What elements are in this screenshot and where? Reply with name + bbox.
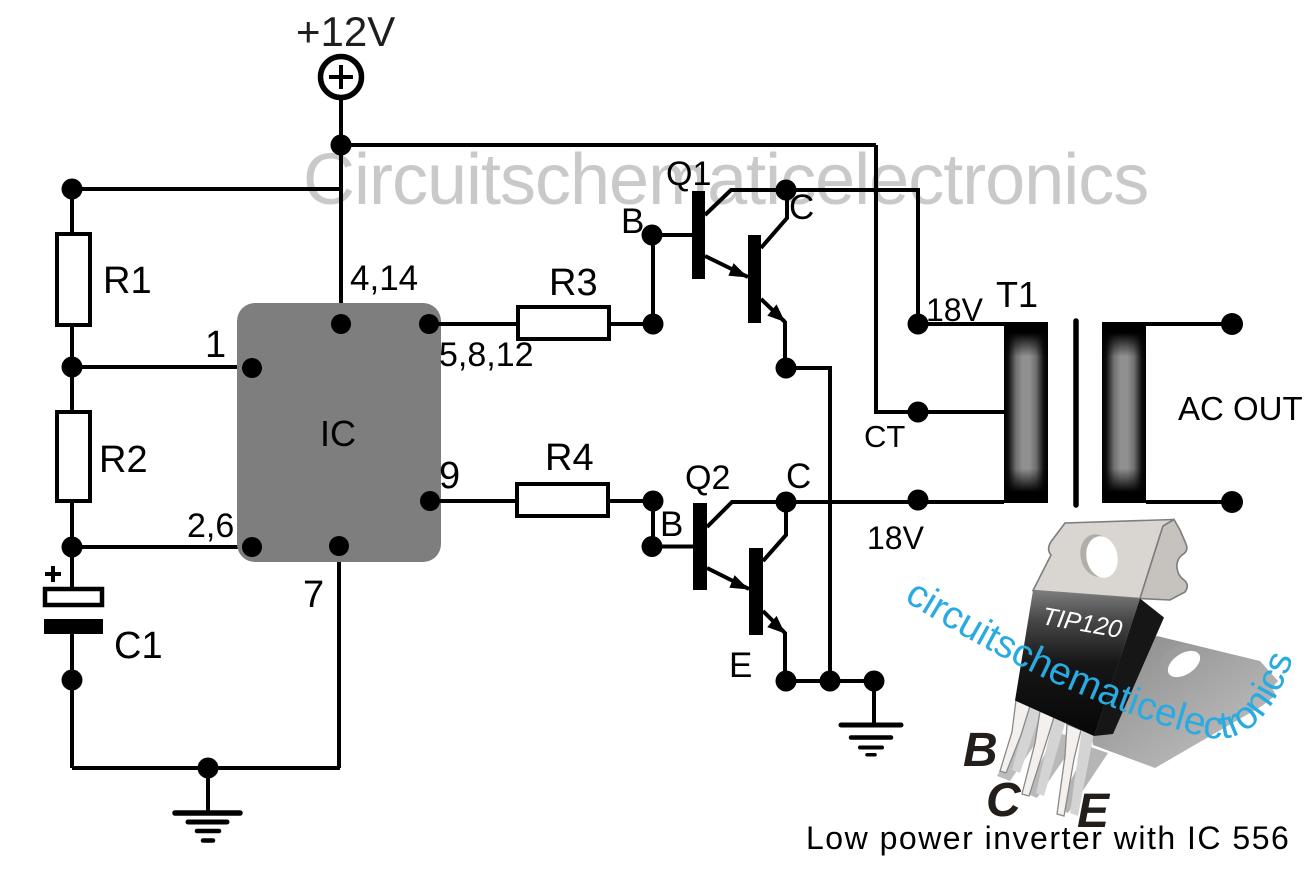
node AC output top (1221, 313, 1243, 335)
transistor Q1 first collector lead (705, 190, 786, 215)
wire node to IC pin 1 (72, 365, 252, 369)
node 18V top tap (908, 314, 929, 335)
node Q1 emitter (776, 358, 797, 379)
wire Q2 base lead (652, 545, 693, 549)
junction ground rail node (198, 758, 219, 779)
capacitor C1 (44, 589, 103, 634)
node AC output bottom (1221, 491, 1243, 513)
svg-text:C: C (786, 457, 811, 496)
svg-text:E: E (729, 646, 752, 685)
TIP120 leg C (1022, 711, 1054, 796)
wire Q1 emitter down lead (783, 321, 787, 368)
wire secondary top output (1146, 322, 1232, 326)
wire IC pin 5,8,12 to R3 (429, 322, 518, 326)
svg-text:B: B (621, 202, 644, 241)
svg-text:7: 7 (303, 574, 324, 616)
svg-text:2,6: 2,6 (187, 507, 234, 545)
wire C1 bottom lead (70, 634, 74, 768)
transformer T1 primary winding (1004, 322, 1048, 503)
wire Q2 emitter down lead (783, 632, 787, 681)
TIP120 leg shadows (1012, 704, 1094, 816)
node B of Q2 (642, 536, 663, 557)
transistor Q1 first base bar (692, 191, 705, 279)
pin 1 dot (242, 358, 262, 378)
svg-text:B: B (963, 724, 998, 777)
wire node to IC pin 2,6 (72, 545, 252, 549)
pin 5,8,12 dot (419, 314, 439, 334)
svg-text:1: 1 (205, 324, 226, 366)
TIP120 metal tab side (1140, 520, 1187, 601)
wire R1 bottom to R2 (70, 325, 74, 412)
pin 9 dot (420, 491, 440, 511)
node Q2 emitter (776, 671, 797, 692)
wire Q1 emitter to common rail (786, 368, 830, 681)
junction +12V rail node (331, 135, 352, 156)
wire Q1 base lead (652, 233, 692, 237)
node 18V bottom tap (908, 490, 929, 511)
svg-text:Low power inverter with IC 556: Low power inverter with IC 556 (806, 820, 1290, 856)
wire node up to Q1 base (651, 235, 655, 324)
wire IC pin 7 lead down (337, 546, 341, 768)
svg-text:R3: R3 (549, 262, 598, 304)
capacitor C1 polarity plus (45, 566, 61, 582)
junction R3 output node (643, 314, 664, 335)
transistor Q2 first base bar (693, 503, 707, 590)
TIP120 body front face (1015, 591, 1140, 737)
wire Q2 collector to 18V bottom tap (786, 500, 1004, 504)
svg-text:Q2: Q2 (685, 459, 730, 497)
node C of Q1 (776, 180, 797, 201)
wire Q1 collector to 18V top tap (786, 190, 1004, 324)
resistor R2 (57, 412, 90, 501)
power +12V supply symbol (321, 57, 362, 98)
svg-text:+12V: +12V (296, 8, 395, 55)
wire +12V rail drop to CT (876, 145, 1004, 412)
svg-text:R1: R1 (103, 260, 152, 302)
wire secondary bottom output (1146, 500, 1232, 504)
svg-text:T1: T1 (996, 274, 1038, 315)
svg-text:9: 9 (439, 455, 460, 497)
svg-text:18V: 18V (926, 292, 984, 328)
transistor Q1 second emitter lead (761, 299, 785, 322)
node CT tap (908, 402, 929, 423)
svg-text:5,8,12: 5,8,12 (439, 336, 534, 374)
junction node pin 2,6 tap (62, 537, 83, 558)
transistor Q2 second base bar (749, 548, 763, 635)
wire +12V stem down to IC pin 4,14 (339, 97, 343, 324)
junction C1 bottom node (62, 670, 83, 691)
svg-text:Circuitschematicelectronics: Circuitschematicelectronics (303, 140, 1148, 220)
junction emitter rail ground node (864, 671, 885, 692)
wire R3 to node (609, 322, 653, 326)
wire R1 top rail (72, 187, 341, 191)
TIP120 body side face (1094, 599, 1164, 737)
svg-text:R2: R2 (99, 439, 148, 481)
ground right symbol (841, 681, 901, 755)
wire R2 bottom lead (70, 501, 74, 589)
node C of Q2 (776, 492, 797, 513)
svg-text:18V: 18V (867, 520, 925, 556)
junction node pin1 tap (62, 357, 83, 378)
IC 556 body (237, 303, 441, 562)
transistor Q2 second collector lead (763, 502, 786, 561)
transformer T1 core (1073, 321, 1079, 505)
pin 2,6 dot (242, 537, 262, 557)
svg-text:C: C (789, 188, 814, 227)
wire R1 top lead (70, 189, 74, 234)
wire IC pin 9 to R4 (430, 499, 517, 503)
transformer T1 secondary winding (1102, 322, 1146, 503)
ground left symbol (175, 768, 240, 841)
transistor Q2 first collector lead (707, 502, 786, 527)
junction R1 top node (62, 179, 83, 200)
TIP120 shadow mounting hole (1155, 639, 1204, 683)
svg-text:IC: IC (320, 413, 356, 454)
wire R4 to node (608, 499, 653, 503)
transistor Q2 second emitter lead (763, 611, 785, 634)
transistor Q1 second base bar (748, 235, 761, 323)
TIP120 shadow silhouette (997, 636, 1278, 813)
svg-text:B: B (660, 505, 683, 544)
node B of Q1 (642, 225, 663, 246)
wire common emitter rail (786, 679, 874, 683)
resistor R3 (518, 307, 609, 339)
svg-text:C1: C1 (114, 625, 163, 667)
wire node down to Q2 base (651, 501, 655, 547)
svg-text:AC OUT: AC OUT (1178, 390, 1303, 427)
wire +12V top rail (341, 143, 876, 147)
TIP120 metal tab front (1033, 520, 1174, 599)
resistor R4 (517, 484, 608, 516)
TIP120 tab mounting hole (1076, 531, 1121, 581)
TIP120 leg E (1057, 724, 1081, 816)
svg-text:4,14: 4,14 (350, 259, 418, 298)
transistor Q2 first emitter lead (707, 568, 749, 590)
svg-text:Q1: Q1 (666, 155, 711, 193)
svg-text:R4: R4 (545, 437, 594, 479)
transistor Q1 first emitter lead (705, 256, 748, 278)
TIP120 leg B (1000, 700, 1030, 773)
svg-text:CT: CT (864, 419, 905, 454)
resistor R1 (57, 234, 90, 325)
pin 7 dot (329, 536, 349, 556)
junction emitter rail mid node (820, 671, 841, 692)
wire bottom ground rail (72, 766, 340, 770)
transistor Q1 second collector lead (761, 190, 787, 248)
junction R4 output node (643, 491, 664, 512)
pin 4,14 dot (331, 314, 351, 334)
